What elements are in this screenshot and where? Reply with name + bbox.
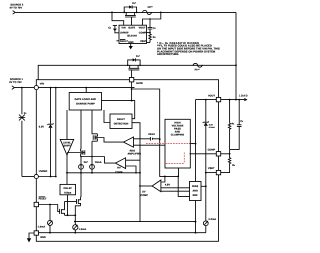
node: reg+ tap: [159, 138, 161, 140]
capacitor C3 (on IC1 UVREF): [113, 25, 119, 32]
svg-text:SHIFT: SHIFT: [63, 144, 71, 147]
svg-text:9V TO 76V: 9V TO 76V: [10, 7, 23, 10]
wire: hv block right stub: [190, 143, 196, 145]
wire: 0.2mA chain: [205, 173, 207, 233]
node: uvref riser tap: [55, 87, 57, 89]
svg-text:10mA: 10mA: [95, 161, 102, 164]
svg-text:COMP: COMP: [139, 32, 147, 35]
wire: right bus vertical: [235, 12, 237, 99]
wire: mid bus 215: [65, 214, 76, 216]
node: after F2: [160, 12, 162, 14]
svg-text:GATE: GATE: [136, 82, 143, 85]
resistor R1: [228, 100, 230, 150]
ground: IC1 GND: [129, 44, 133, 50]
svg-text:VOUT: VOUT: [139, 26, 146, 29]
wire: hv comp inputs: [126, 160, 140, 173]
wire: T1 chain: [92, 110, 97, 164]
svg-text:ARCHITECTURE.: ARCHITECTURE.: [157, 53, 179, 56]
svg-text:AND: AND: [192, 190, 198, 193]
wire: sources top rail: [81, 156, 105, 158]
red dashed highlight: [146, 143, 193, 163]
svg-text:9V TO 76V: 9V TO 76V: [9, 81, 22, 84]
wire: VIN internal rail: [38, 87, 134, 89]
wire: IC1 COMP stub: [147, 32, 151, 34]
bias and ref box: [190, 182, 202, 201]
gate logic and charge pump box: [69, 93, 101, 111]
svg-text:0.1mA: 0.1mA: [209, 126, 216, 129]
wire: bias left bottom branch: [178, 176, 189, 196]
node: gate box riser tap: [85, 87, 87, 89]
wire: uv output: [140, 185, 152, 187]
high voltage pass box: [165, 119, 190, 168]
wire: source1 rail: [14, 87, 34, 89]
fuse F1: [192, 63, 202, 67]
source 2 label: [10, 4, 24, 10]
svg-text:UVREF: UVREF: [39, 170, 48, 173]
wire: load rail: [221, 99, 245, 101]
svg-text:F2**: F2**: [148, 6, 153, 9]
current source 2uA: [79, 164, 84, 169]
pin GND: [34, 231, 46, 239]
svg-text:COMP: COMP: [208, 148, 216, 151]
wire: uv lower input 4.8V: [161, 187, 190, 189]
wire: source2 top rail: [15, 11, 236, 13]
transistor T3: [60, 202, 65, 216]
wire: bottom bus left part: [75, 221, 140, 223]
zener Z2 (transient suppressor): [19, 88, 26, 177]
wire: comp junction: [221, 149, 230, 153]
svg-text:COMP: COMP: [140, 194, 148, 197]
wire: T4 source down: [75, 206, 80, 225]
pin UVREF: [34, 170, 48, 179]
resistor R2: [221, 154, 231, 173]
wire: gate pin drop: [131, 82, 133, 101]
IC U2 ISL6144 ORing controller: [119, 25, 147, 44]
svg-text:LOAD: LOAD: [239, 94, 248, 97]
fuse F2: [142, 10, 152, 14]
svg-text:CLAMPING: CLAMPING: [171, 134, 185, 137]
wire: T3 drain to T4 gate: [65, 201, 77, 203]
pin VIN: [34, 83, 44, 90]
source 1 input arrow: [12, 86, 15, 90]
node: C2 top: [238, 99, 240, 101]
svg-text:R2: R2: [232, 164, 235, 167]
current source 1.9mA right: [73, 225, 78, 233]
wire: Z2 to UVREF: [22, 176, 34, 178]
svg-text:GND: GND: [40, 236, 46, 239]
wire: bias right stub: [201, 185, 206, 187]
wire: T2 gate link: [67, 152, 85, 154]
wire: gate box top stub: [85, 88, 87, 93]
node: zener at uvref wire: [50, 176, 52, 178]
wire: comp internal: [190, 153, 217, 155]
svg-text:F1**: F1**: [195, 68, 200, 71]
svg-text:D1*: D1*: [136, 55, 140, 58]
transistor Q1 (with parasitic diode D1): [128, 58, 140, 77]
svg-text:Z2: Z2: [24, 112, 27, 115]
hv comp: [115, 158, 126, 174]
ground: main: [27, 233, 34, 242]
wire: IC1 VIN feed: [112, 12, 124, 25]
svg-text:HV: HV: [117, 166, 121, 169]
node: right bus at load rail: [235, 99, 237, 101]
svg-text:R2: R2: [153, 36, 156, 39]
svg-text:GATE: GATE: [128, 26, 135, 29]
wire: bias left lower: [161, 190, 190, 192]
svg-text:20mV: 20mV: [148, 133, 155, 136]
battery 20mV offset: [134, 137, 160, 141]
wire: level shift top: [66, 110, 68, 139]
svg-text:COMP: COMP: [115, 171, 123, 174]
wire: gate sense rail: [132, 89, 179, 176]
label 6.3V 0.1mA: [209, 123, 216, 129]
svg-text:FAULT: FAULT: [39, 198, 47, 201]
pin VOUT: [208, 95, 221, 102]
wire: IC1 VOUT feed: [143, 12, 161, 25]
svg-text:BIAS: BIAS: [192, 185, 198, 188]
wire: fault pin internal: [39, 205, 60, 212]
node: 1.9mA tap: [49, 204, 51, 206]
reg amplifier: [124, 137, 142, 156]
svg-text:ISL6144: ISL6144: [127, 34, 137, 37]
capacitor C2: [230, 100, 242, 150]
node: gate pin rail cross: [131, 88, 133, 90]
pin GATE: [129, 78, 143, 86]
svg-text:CHARGE PUMP: CHARGE PUMP: [76, 103, 95, 106]
node: Q1 branch tap: [38, 87, 40, 89]
source 2 input arrow: [13, 11, 16, 15]
svg-text:REF: REF: [193, 194, 199, 197]
wire: row2 riser: [38, 65, 236, 87]
svg-text:VSET: VSET: [140, 40, 147, 43]
wire: uvref internal: [38, 176, 56, 178]
svg-text:C2: C2: [153, 27, 156, 30]
wire: bias bottom: [195, 201, 197, 233]
wire: reg output: [95, 138, 124, 143]
transistor T4: [77, 197, 81, 206]
pin VSET: [208, 167, 221, 175]
node: IC1 comp network tap: [149, 18, 151, 20]
wire: delay output: [67, 195, 69, 216]
note text: [157, 42, 220, 56]
capacitor C2a (IC1 comp): [148, 19, 153, 33]
node: bias right: [205, 185, 207, 187]
node: R1 top: [229, 99, 231, 101]
current source 1.9mA left: [48, 205, 53, 233]
wire: IC1 FAULT stub: [116, 40, 119, 42]
svg-text:VOUT: VOUT: [208, 95, 215, 98]
uv comp: [140, 180, 160, 197]
svg-text:DETECTION: DETECTION: [114, 123, 129, 126]
node: IC1 VIN tap: [111, 12, 113, 14]
current source 0.2mA: [203, 221, 208, 226]
wire: uvref riser: [55, 88, 57, 177]
wire: sources bottom bus: [67, 169, 140, 173]
wire: fault det right to uv chain: [132, 123, 196, 222]
wire: vset internal: [206, 172, 217, 174]
load arrow: [244, 98, 247, 101]
wire: T2 chain: [80, 110, 82, 164]
svg-text:AMPLIFIER: AMPLIFIER: [127, 153, 141, 156]
level shift triangle: [60, 139, 73, 155]
transistor T2: [81, 149, 85, 156]
svg-text:4.8V: 4.8V: [165, 184, 171, 187]
source 1 label: [9, 78, 23, 84]
transistor T1: [93, 134, 97, 141]
wire: gnd internal bus: [39, 232, 206, 234]
svg-text:VSET: VSET: [208, 167, 215, 170]
svg-text:VIN: VIN: [40, 83, 44, 86]
node: right bus row2: [235, 64, 237, 66]
wire: reg- input: [134, 144, 166, 146]
wire: fault det left: [104, 110, 110, 123]
node: Z2 tap: [21, 87, 23, 89]
svg-text:R1: R1: [232, 122, 235, 125]
pin COMP: [208, 148, 221, 156]
node: zener tap: [50, 87, 52, 89]
zener 6.5V: [47, 88, 53, 177]
svg-text:VIN: VIN: [121, 26, 125, 29]
svg-text:0.2mA: 0.2mA: [209, 218, 217, 221]
current source 10mA: [90, 164, 95, 169]
svg-text:D2*: D2*: [132, 2, 136, 5]
transistor Q2 (with parasitic diode D2): [124, 5, 136, 25]
svg-text:FAULT: FAULT: [117, 118, 125, 121]
svg-text:GND: GND: [128, 41, 134, 44]
svg-text:6.5V: 6.5V: [39, 125, 45, 128]
resistor R2a (IC1): [149, 33, 151, 43]
wire: IC1 VSET stub: [147, 42, 151, 44]
pin FAULT: [34, 197, 47, 207]
wire: vout sense vertical: [195, 100, 197, 182]
wire: level shift to delay: [66, 155, 68, 184]
wire: hv comp output: [105, 157, 116, 164]
delay box: [60, 184, 76, 194]
svg-text:2A*: 2A*: [84, 161, 88, 164]
svg-text:DELAY: DELAY: [64, 187, 73, 190]
wire: uv upper input: [161, 176, 165, 182]
svg-text:1.9mA: 1.9mA: [79, 228, 87, 231]
node: zener 6.3V tap: [205, 99, 207, 101]
wire: T4 drain up: [80, 173, 82, 197]
IC U1 main block: [36, 80, 218, 242]
svg-text:GATE LOGIC AND: GATE LOGIC AND: [74, 98, 96, 101]
svg-text:1.9mA: 1.9mA: [38, 225, 46, 228]
wire: gate box right: [102, 101, 135, 119]
svg-text:100µs: 100µs: [64, 191, 72, 194]
svg-text:6.3V: 6.3V: [209, 123, 214, 126]
zener 6.3V: [203, 100, 209, 173]
fault detection box: [110, 114, 132, 129]
svg-text:C2: C2: [240, 120, 243, 123]
wire: vout pin internal: [196, 99, 217, 101]
